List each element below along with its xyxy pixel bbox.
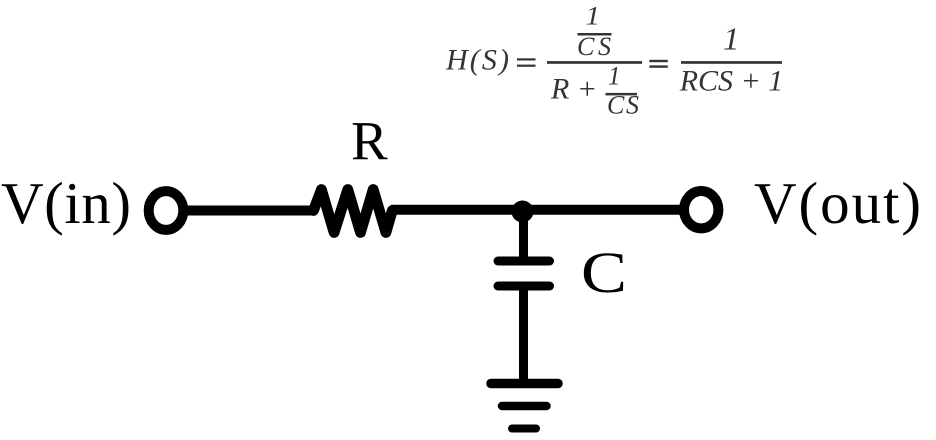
svg-text:RCS + 1: RCS + 1 — [679, 64, 784, 97]
junction node dot — [512, 201, 534, 223]
capacitor C bottom plate — [498, 282, 550, 291]
output terminal circle — [684, 191, 718, 228]
fraction 1 nested numerator bar — [578, 33, 612, 36]
equals sign 1 — [517, 58, 536, 60]
formula H(S) transfer function — [445, 2, 783, 120]
svg-text:1: 1 — [608, 62, 621, 91]
fraction 1 denominator nested bar — [606, 93, 638, 96]
fraction 1 main bar — [547, 61, 642, 64]
svg-text:R: R — [351, 111, 388, 172]
svg-text:1: 1 — [586, 2, 601, 31]
resistor R zigzag — [314, 190, 393, 233]
ground bar 1 — [491, 379, 558, 389]
input terminal circle — [149, 191, 184, 230]
svg-text:H(S): H(S) — [445, 44, 509, 77]
capacitor C top plate — [498, 257, 550, 266]
svg-text:CS: CS — [577, 32, 611, 61]
ground bar 2 — [502, 402, 547, 411]
svg-text:CS: CS — [607, 91, 639, 120]
svg-text:V(in): V(in) — [1, 170, 131, 236]
svg-text:1: 1 — [723, 21, 740, 57]
wire from resistor to output terminal — [391, 205, 684, 215]
svg-text:R +: R + — [550, 73, 597, 106]
wire from junction down to capacitor — [519, 211, 528, 261]
wire from input terminal to resistor — [186, 206, 315, 216]
ground bar 3 — [512, 425, 536, 433]
svg-text:C: C — [581, 240, 627, 305]
svg-text:V(out): V(out) — [754, 170, 921, 236]
equals sign 2 — [649, 60, 667, 62]
fraction 2 bar — [681, 61, 782, 64]
wire from capacitor down to ground — [519, 286, 528, 384]
